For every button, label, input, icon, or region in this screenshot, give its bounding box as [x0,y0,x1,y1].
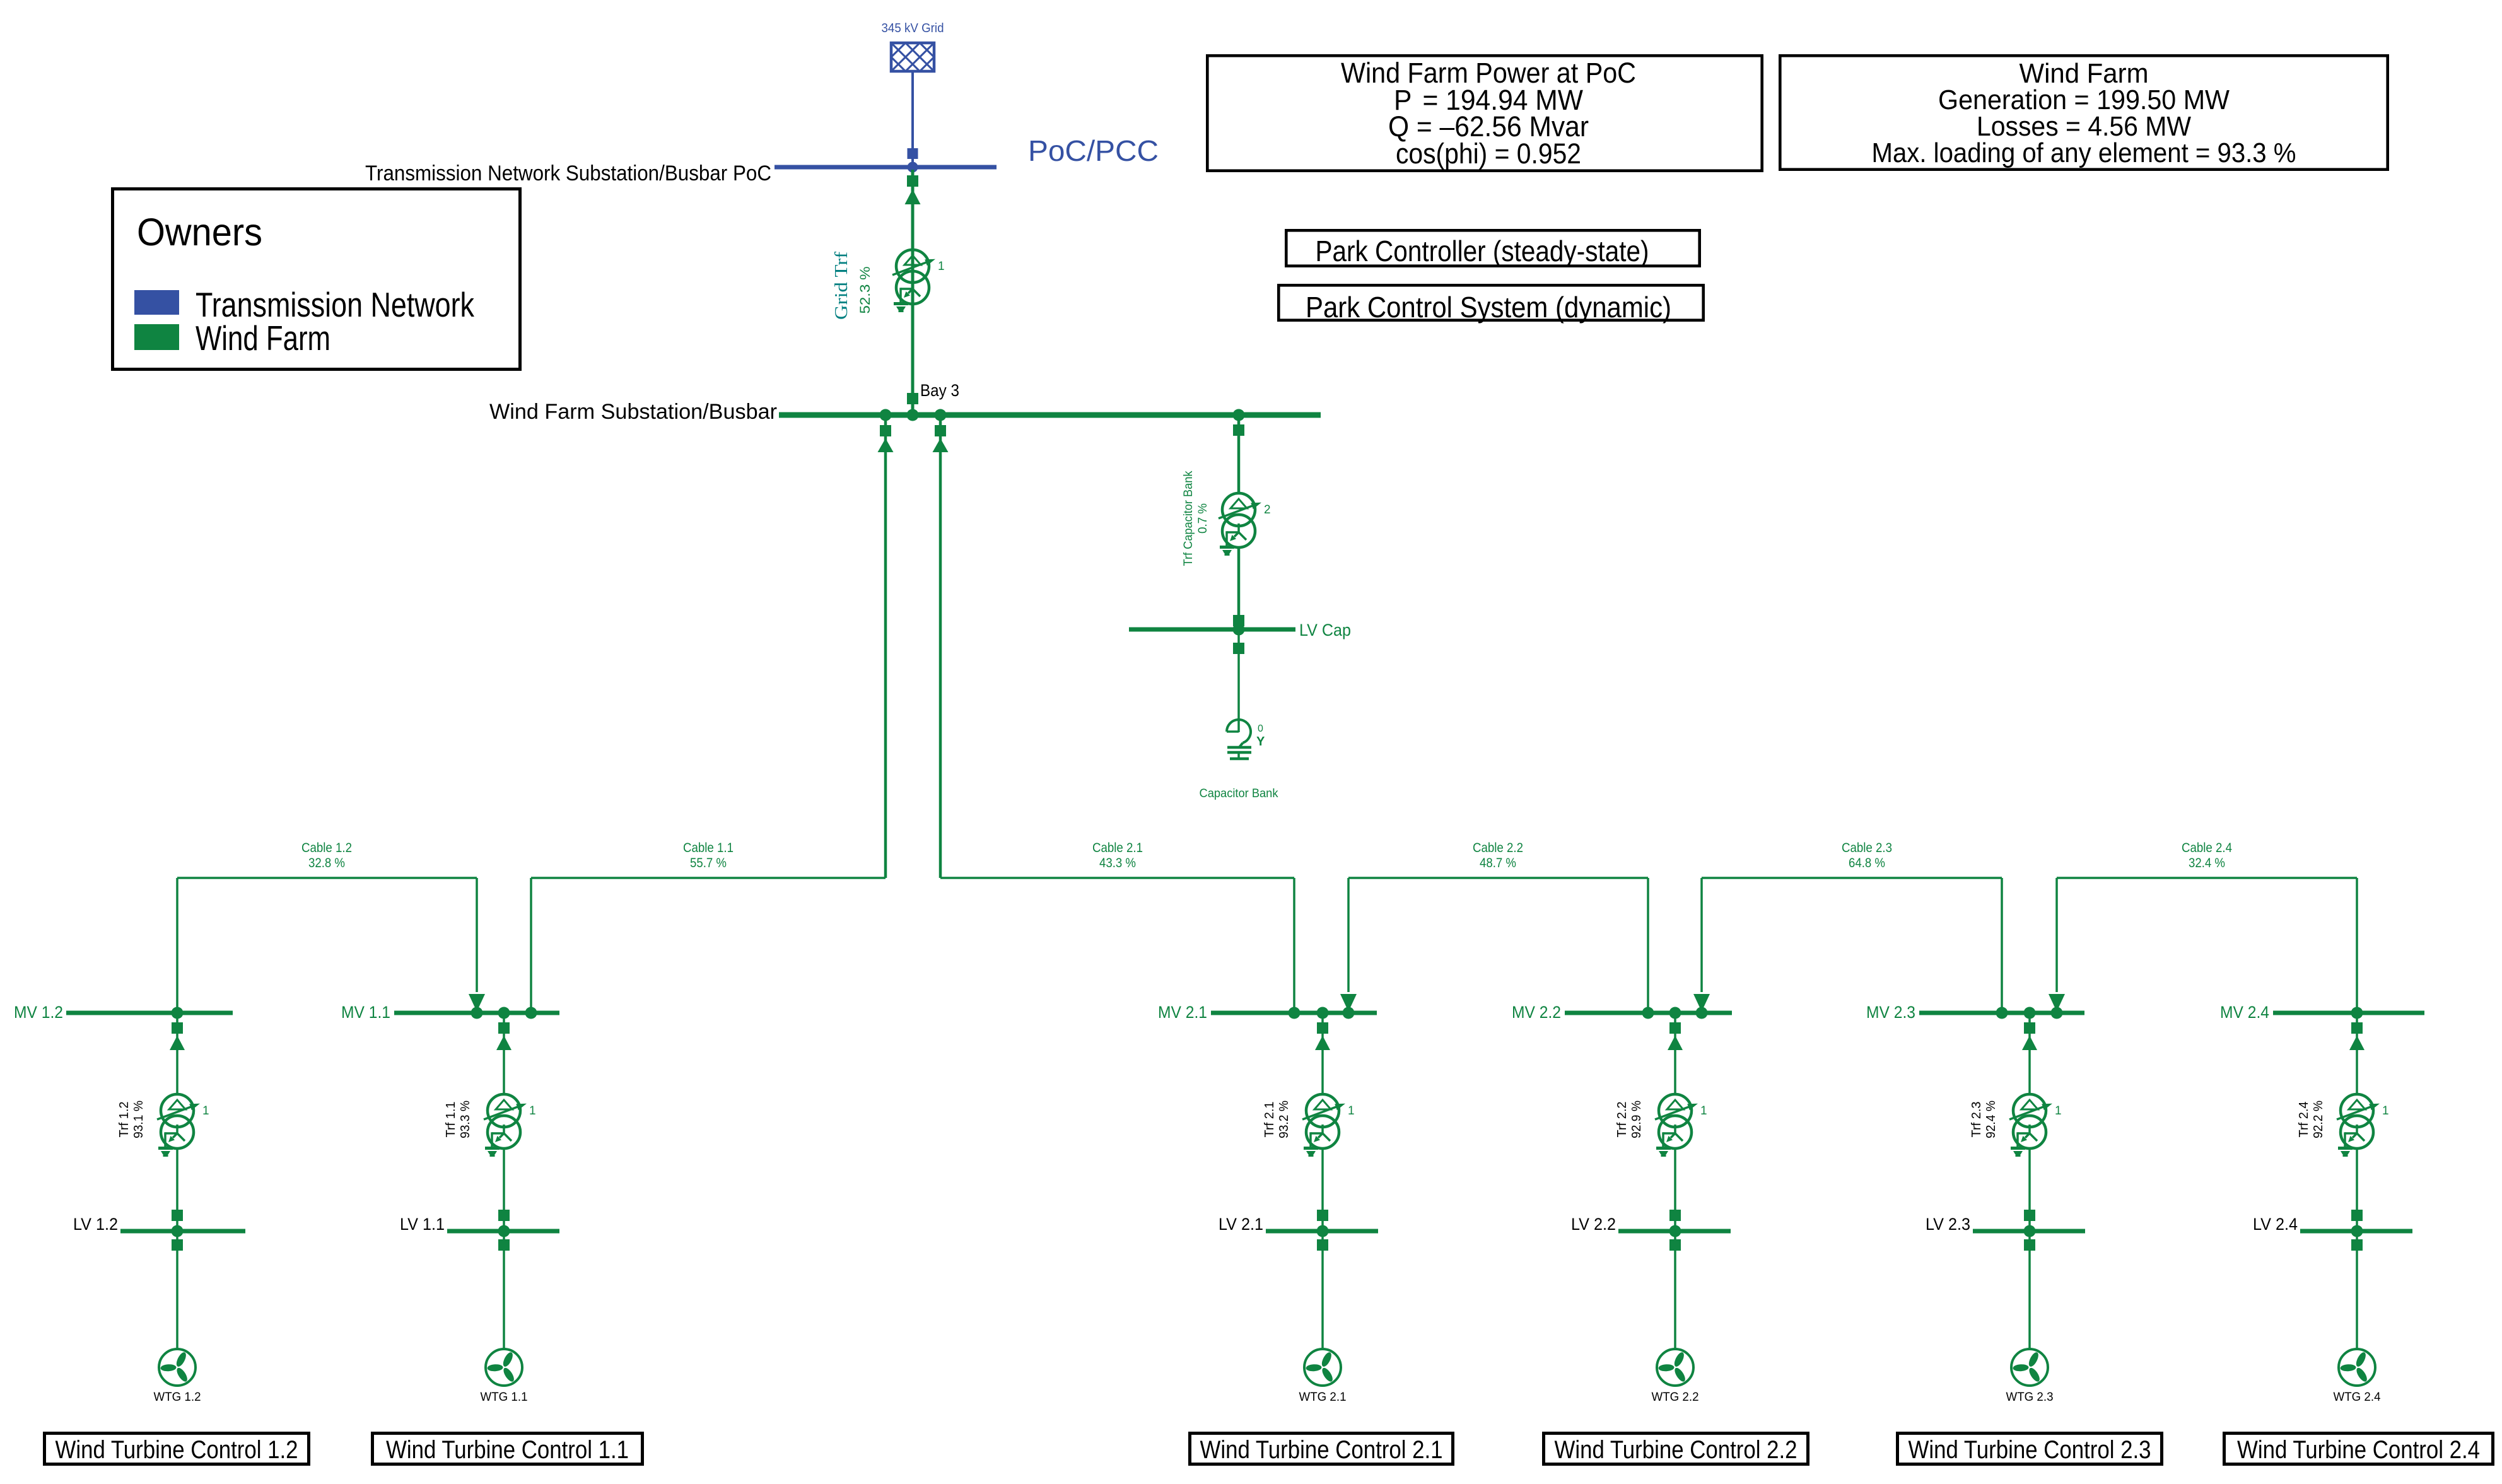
svg-text:32.4 %: 32.4 % [2189,856,2225,870]
svg-text:WTG 2.3: WTG 2.3 [2006,1391,2054,1404]
svg-text:48.7 %: 48.7 % [1480,856,1516,870]
svg-text:Wind Turbine Control 2.3: Wind Turbine Control 2.3 [1909,1436,2151,1464]
svg-text:92.2 %: 92.2 % [2312,1101,2325,1138]
svg-text:2: 2 [1264,503,1271,517]
svg-text:1: 1 [1348,1104,1355,1118]
svg-text:Y: Y [1256,735,1265,749]
svg-text:345 kV Grid: 345 kV Grid [882,21,944,35]
svg-text:0.7 %: 0.7 % [1196,503,1210,534]
svg-text:LV 2.4: LV 2.4 [2253,1215,2298,1234]
svg-text:LV 2.3: LV 2.3 [1926,1215,1970,1234]
svg-text:1: 1 [938,260,945,273]
svg-text:92.4 %: 92.4 % [1984,1101,1998,1138]
svg-text:Cable 1.2: Cable 1.2 [301,841,352,855]
svg-text:MV 2.2: MV 2.2 [1512,1003,1561,1022]
svg-text:Wind Farm: Wind Farm [196,318,330,358]
svg-text:MV 1.2: MV 1.2 [14,1003,63,1022]
svg-text:Wind Turbine Control 2.2: Wind Turbine Control 2.2 [1555,1436,1798,1464]
svg-text:Max. loading of any element =: Max. loading of any element = 93.3 % [1872,137,2296,168]
svg-text:LV 2.2: LV 2.2 [1571,1215,1616,1234]
svg-text:MV 2.3: MV 2.3 [1866,1003,1915,1022]
svg-text:Trf 2.1: Trf 2.1 [1263,1102,1277,1138]
svg-text:MV 2.1: MV 2.1 [1158,1003,1207,1022]
svg-text:Wind Farm Substation/Busbar: Wind Farm Substation/Busbar [489,400,777,424]
svg-text:Capacitor Bank: Capacitor Bank [1200,787,1278,800]
svg-text:Cable 2.1: Cable 2.1 [1092,841,1143,855]
svg-text:Trf 1.2: Trf 1.2 [117,1102,131,1138]
svg-text:Trf 2.3: Trf 2.3 [1970,1102,1984,1138]
svg-text:LV Cap: LV Cap [1299,621,1351,640]
svg-text:Wind Turbine Control 2.1: Wind Turbine Control 2.1 [1200,1436,1443,1464]
svg-text:WTG 1.2: WTG 1.2 [154,1391,201,1404]
svg-text:1: 1 [1700,1104,1707,1118]
svg-text:Wind Turbine Control 1.1: Wind Turbine Control 1.1 [386,1436,629,1464]
svg-text:Park Control System (dynamic): Park Control System (dynamic) [1306,291,1671,324]
svg-text:WTG 2.4: WTG 2.4 [2334,1391,2381,1404]
svg-text:Cable 1.1: Cable 1.1 [683,841,734,855]
svg-text:Trf 1.1: Trf 1.1 [444,1102,458,1138]
svg-text:Trf Capacitor Bank: Trf Capacitor Bank [1182,470,1195,566]
svg-text:Cable 2.2: Cable 2.2 [1473,841,1523,855]
svg-text:93.1 %: 93.1 % [132,1101,146,1138]
svg-text:WTG 1.1: WTG 1.1 [481,1391,528,1404]
svg-text:cos(phi) = 0.952: cos(phi) = 0.952 [1396,137,1581,170]
svg-text:Owners: Owners [137,211,262,254]
svg-text:43.3 %: 43.3 % [1099,856,1136,870]
svg-text:Wind Turbine Control 1.2: Wind Turbine Control 1.2 [56,1436,298,1464]
svg-text:32.8 %: 32.8 % [308,856,345,870]
svg-text:64.8 %: 64.8 % [1849,856,1885,870]
svg-text:WTG 2.1: WTG 2.1 [1299,1391,1347,1404]
svg-text:93.2 %: 93.2 % [1277,1101,1291,1138]
svg-text:1: 1 [2055,1104,2062,1118]
svg-text:Trf 2.4: Trf 2.4 [2297,1102,2311,1138]
svg-text:55.7 %: 55.7 % [690,856,727,870]
svg-text:1: 1 [2382,1104,2389,1118]
svg-text:Cable 2.4: Cable 2.4 [2182,841,2232,855]
svg-text:Transmission Network Substatio: Transmission Network Substation/Busbar P… [365,161,771,185]
svg-text:Park Controller (steady-state): Park Controller (steady-state) [1316,235,1649,267]
svg-text:LV 2.1: LV 2.1 [1219,1215,1263,1234]
svg-text:Wind Turbine Control 2.4: Wind Turbine Control 2.4 [2237,1436,2480,1464]
svg-text:0: 0 [1258,723,1263,734]
svg-text:92.9 %: 92.9 % [1630,1101,1644,1138]
svg-text:1: 1 [202,1104,209,1118]
svg-text:1: 1 [529,1104,536,1118]
svg-text:Cable 2.3: Cable 2.3 [1842,841,1892,855]
svg-text:PoC/PCC: PoC/PCC [1028,134,1159,167]
svg-text:Bay 3: Bay 3 [920,381,959,400]
svg-text:MV 1.1: MV 1.1 [341,1003,390,1022]
svg-text:52.3 %: 52.3 % [857,267,873,314]
svg-text:Trf 2.2: Trf 2.2 [1615,1102,1629,1138]
svg-text:Grid Trf: Grid Trf [832,251,851,320]
svg-text:MV 2.4: MV 2.4 [2220,1003,2269,1022]
svg-text:LV 1.1: LV 1.1 [400,1215,445,1234]
svg-text:LV 1.2: LV 1.2 [73,1215,118,1234]
svg-text:93.3 %: 93.3 % [459,1101,472,1138]
svg-text:WTG 2.2: WTG 2.2 [1652,1391,1699,1404]
